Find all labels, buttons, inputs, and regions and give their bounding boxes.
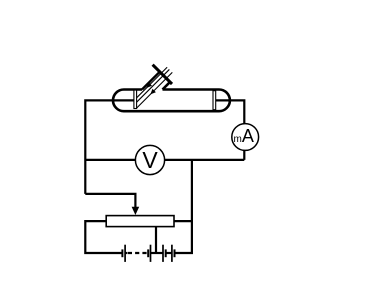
wire: cathode lead from tube left end to left column: [85, 100, 134, 194]
milliammeter mA: [232, 124, 259, 151]
wire: battery link cell2 to cell3 (with tap junction): [151, 252, 164, 254]
battery GB cell3 short plate: [165, 249, 167, 257]
wire: rheostat right lead to right column: [174, 220, 192, 222]
battery GB cell2 long plate: [150, 245, 152, 262]
battery GB cell4 long plate: [171, 245, 173, 262]
wire: right column from V-branch junction down to battery right end: [175, 160, 192, 253]
wire: wiper branch from left column to slider arrow: [85, 194, 135, 209]
light ray 3: [137, 72, 173, 108]
anode plate A: [213, 91, 216, 110]
battery GB cell3 long plate: [162, 245, 164, 262]
light ray arrowhead 1: [146, 82, 152, 88]
wire: center tap from rheostat bottom to battery midpoint: [155, 227, 157, 253]
wire: dashed battery continuation: [128, 252, 147, 254]
cathode plate K: [134, 90, 137, 108]
phototube quartz window plate: [153, 65, 172, 84]
wire: anode lead from tube right end down to milliammeter: [216, 100, 245, 160]
phototube envelope: [113, 90, 230, 112]
voltmeter V: [135, 145, 164, 174]
battery GB cell1 short plate: [121, 249, 123, 257]
battery GB cell1 long plate: [124, 245, 126, 262]
wire: rheostat left lead down to battery left end: [85, 221, 121, 253]
wire: battery link tall1 to dashes: [125, 252, 127, 254]
wire: voltmeter branch across: [85, 159, 244, 161]
slider arrowhead of rheostat RP: [132, 207, 140, 215]
rheostat RP body: [106, 216, 174, 227]
light ray arrowhead 2: [150, 89, 156, 95]
light ray 2: [137, 69, 170, 102]
phototube window funnel left wall: [142, 72, 160, 90]
battery GB cell2 short plate: [147, 249, 149, 257]
light ray 1: [137, 67, 168, 98]
battery GB cell4 short plate: [174, 249, 176, 257]
wire: battery link cell3 to cell4: [166, 252, 172, 254]
svg-text:V: V: [142, 147, 158, 173]
phototube window funnel right wall: [163, 82, 170, 89]
